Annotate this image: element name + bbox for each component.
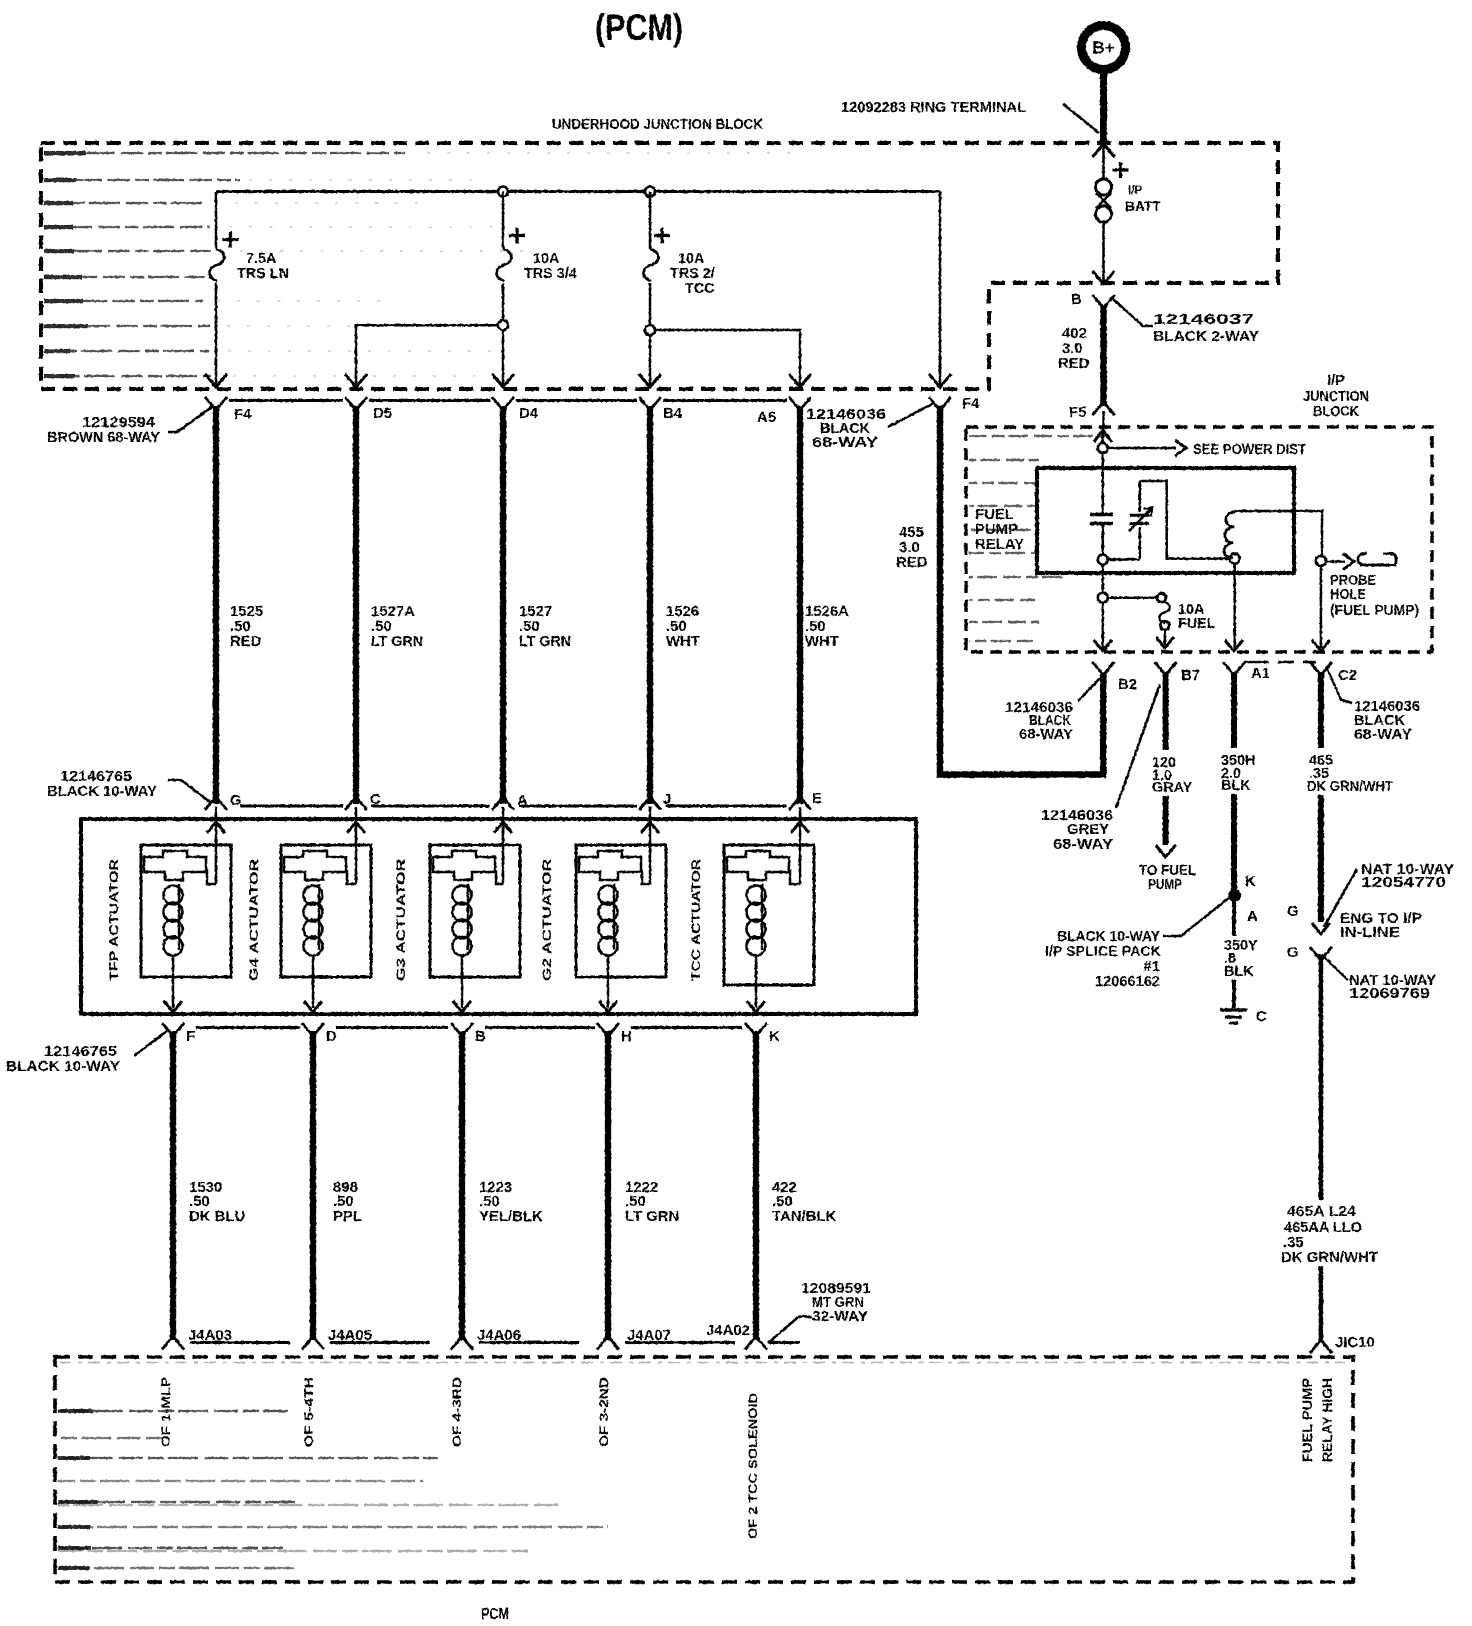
- label wire 1526: [666, 604, 700, 650]
- svg-text:YEL/BLK: YEL/BLK: [479, 1209, 543, 1225]
- svg-text:FUEL: FUEL: [1178, 616, 1216, 632]
- arrow D5 exit: [345, 374, 367, 387]
- svg-text:TCC ACTUATOR: TCC ACTUATOR: [689, 859, 703, 981]
- leader 12146036 C2: [1327, 668, 1352, 703]
- svg-text:JUNCTION: JUNCTION: [1303, 389, 1369, 405]
- relay contact capacitor plates: [1090, 515, 1113, 524]
- relay switch: [1129, 481, 1152, 560]
- arrow feed into IP block: [1094, 430, 1112, 442]
- pin D: [302, 1023, 337, 1045]
- junction TRS2 branch: [645, 325, 655, 335]
- label wire 1222: [625, 1180, 679, 1225]
- wire feed to relay: [1102, 432, 1105, 513]
- wire into G4 actuator: [347, 807, 356, 884]
- junction coil bottom: [1230, 554, 1240, 564]
- label 455 3.0 RED: [896, 525, 928, 571]
- pin B4 brown: [639, 397, 683, 422]
- svg-text:3.0: 3.0: [899, 540, 920, 556]
- svg-text:12066162: 12066162: [1095, 974, 1160, 990]
- svg-text:C: C: [1256, 1009, 1267, 1025]
- svg-text:K: K: [1245, 874, 1256, 890]
- svg-text:12129594: 12129594: [82, 415, 156, 431]
- svg-text:465A L24: 465A L24: [1287, 1204, 1357, 1220]
- label 465A L24 465AA LLO .35 DK GRN/WHT: [1281, 1204, 1378, 1266]
- leader 12146765 upper: [168, 780, 210, 802]
- arrow B+ into box: [1093, 144, 1115, 157]
- label SEE POWER DIST: [1193, 442, 1306, 458]
- G3 solenoid coil: [453, 884, 472, 956]
- svg-text:.50: .50: [666, 619, 687, 635]
- wire coil down: [1233, 564, 1236, 648]
- wire coil top to probe: [1235, 511, 1322, 555]
- actuator assembly box: [81, 819, 916, 1014]
- svg-text:465AA LLO: 465AA LLO: [1284, 1220, 1362, 1236]
- wire 1525 RED: [213, 406, 219, 804]
- wire probe arrow: [1327, 554, 1355, 570]
- TCC actuator box: [724, 845, 814, 985]
- label G3 ACTUATOR: [394, 859, 408, 981]
- pin D4 brown: [492, 397, 539, 422]
- connector bar brown 68-way: [229, 399, 787, 402]
- pin J4A02: [706, 1323, 767, 1350]
- wire switch loop: [1140, 481, 1230, 559]
- battery terminal B+: [1082, 26, 1126, 70]
- wire fuse bus: [216, 190, 940, 193]
- arrow out of G4 actuator: [304, 1001, 322, 1012]
- svg-text:.50: .50: [333, 1194, 354, 1210]
- svg-text:F5: F5: [1069, 405, 1086, 421]
- svg-text:I/P: I/P: [1128, 185, 1142, 197]
- svg-text:BLACK 10-WAY: BLACK 10-WAY: [47, 784, 157, 800]
- wire 465A upper: [1319, 954, 1324, 1200]
- pin F: [162, 1023, 195, 1045]
- svg-text:RED: RED: [230, 634, 262, 650]
- wire 1527 LT GRN: [500, 406, 506, 804]
- wire 350Y BLK: [1232, 898, 1236, 1008]
- pin B2: [1092, 662, 1137, 693]
- arrow feed exit: [1094, 640, 1112, 651]
- svg-text:68-WAY: 68-WAY: [812, 435, 878, 451]
- TFP solenoid coil: [164, 884, 183, 956]
- fuse F2 10A TRS 3/4: [497, 228, 577, 283]
- label wire 1527: [519, 604, 571, 650]
- svg-text:B7: B7: [1181, 668, 1200, 684]
- svg-text:.50: .50: [772, 1194, 793, 1210]
- arrow F4 exit: [205, 374, 227, 387]
- label wire 1525: [230, 604, 263, 650]
- svg-text:PUMP: PUMP: [1148, 877, 1182, 893]
- G2 actuator box: [576, 845, 666, 977]
- wire branch to A5: [655, 330, 800, 385]
- label 12146036 BLACK 68-WAY left: [806, 407, 886, 451]
- svg-text:PPL: PPL: [333, 1209, 362, 1225]
- svg-text:FUEL PUMP: FUEL PUMP: [1300, 1378, 1315, 1462]
- svg-text:TRS 2/: TRS 2/: [670, 266, 715, 282]
- label BLACK 10-WAY I/P SPLICE PACK #1 12066162: [1045, 929, 1161, 990]
- wire out of TFP actuator: [172, 955, 175, 1008]
- G4 solenoid plunger: [284, 851, 346, 880]
- label 350H 2.0 BLK: [1221, 753, 1255, 794]
- wire bus to F4 black: [939, 192, 942, 386]
- svg-text:1527: 1527: [519, 604, 552, 620]
- svg-text:BATT: BATT: [1125, 199, 1161, 214]
- svg-text:B: B: [475, 1029, 486, 1045]
- junction relay common: [1098, 555, 1108, 565]
- wire 898 PPL: [310, 1031, 316, 1340]
- svg-text:B: B: [1071, 292, 1082, 308]
- wire feed exit: [1102, 603, 1105, 648]
- label 350Y .8 BLK: [1224, 938, 1258, 980]
- wire bus to fuse TRS 3/4: [502, 192, 505, 250]
- junction bus-TRS2: [645, 187, 655, 197]
- wire 1526A WHT: [797, 406, 803, 804]
- fuse 10A FUEL: [1157, 593, 1216, 632]
- svg-text:D4: D4: [519, 406, 539, 422]
- svg-text:RED: RED: [1058, 356, 1090, 372]
- svg-text:BLK: BLK: [1221, 778, 1251, 794]
- arrow out of G3 actuator: [453, 1001, 471, 1012]
- svg-text:G4 ACTUATOR: G4 ACTUATOR: [247, 859, 261, 981]
- svg-text:RELAY HIGH: RELAY HIGH: [1320, 1378, 1335, 1462]
- svg-text:TFP ACTUATOR: TFP ACTUATOR: [107, 859, 121, 981]
- svg-text:LT GRN: LT GRN: [519, 634, 571, 650]
- svg-text:A: A: [1247, 909, 1258, 925]
- label FUEL PUMP RELAY: [975, 507, 1024, 553]
- wire B+ stem: [1100, 69, 1107, 141]
- svg-text:68-WAY: 68-WAY: [1354, 727, 1412, 743]
- svg-text:J4A07: J4A07: [627, 1328, 671, 1344]
- PCM box (dashed): [55, 1357, 1353, 1582]
- svg-text:TCC: TCC: [685, 281, 715, 297]
- label PCM FUEL PUMP RELAY HIGH: [1300, 1378, 1335, 1462]
- arrow out of G2 actuator: [599, 1001, 617, 1012]
- svg-text:HOLE: HOLE: [1330, 587, 1366, 603]
- scan noise PCM: [58, 1363, 1345, 1571]
- svg-text:10A: 10A: [533, 251, 560, 267]
- svg-text:B2: B2: [1118, 677, 1137, 693]
- pin J4A06: [451, 1328, 521, 1350]
- arrow batt feed exit: [1093, 271, 1115, 284]
- relay coil: [1224, 512, 1235, 558]
- pin C2: [1310, 662, 1357, 684]
- wire into TCC actuator: [790, 807, 800, 884]
- svg-text:12069769: 12069769: [1349, 986, 1430, 1002]
- label 12146036 BLACK 68-WAY C2: [1354, 699, 1420, 743]
- leader NAT upper: [1324, 869, 1357, 927]
- G4 solenoid coil: [304, 884, 323, 956]
- svg-text:RED: RED: [896, 555, 928, 571]
- svg-text:G: G: [1287, 904, 1299, 920]
- svg-text:G2 ACTUATOR: G2 ACTUATOR: [540, 859, 554, 981]
- label 12146036 GREY 68-WAY: [1041, 808, 1113, 853]
- wire 1527A LT GRN: [353, 406, 359, 804]
- junction TRS34 branch: [498, 320, 508, 330]
- svg-text:WHT: WHT: [805, 634, 839, 650]
- connector bar 32-way: [190, 1341, 800, 1344]
- svg-text:OF 3-2ND: OF 3-2ND: [597, 1377, 611, 1447]
- arrow into G2 actuator: [641, 822, 659, 833]
- arrow see power dist: [1175, 440, 1186, 456]
- arrow out of TCC actuator: [747, 1001, 765, 1012]
- svg-text:.50: .50: [519, 619, 540, 635]
- pin B 2-way: [1071, 292, 1115, 308]
- pin G: [205, 793, 242, 810]
- svg-text:.50: .50: [479, 1194, 500, 1210]
- svg-text:.35: .35: [1283, 1235, 1304, 1251]
- label A: [1247, 909, 1258, 925]
- connector bar A1-C2: [1243, 661, 1316, 664]
- svg-text:1525: 1525: [230, 604, 263, 620]
- label PCM pin function OF 5-4TH: [302, 1377, 316, 1447]
- svg-text:DK BLU: DK BLU: [189, 1209, 245, 1225]
- connector bar black 10-way upper: [240, 805, 787, 808]
- svg-text:OF 5-4TH: OF 5-4TH: [302, 1377, 316, 1447]
- wire common to switch stub: [1108, 558, 1140, 561]
- svg-text:32-WAY: 32-WAY: [812, 1309, 868, 1325]
- svg-text:GRAY: GRAY: [1152, 780, 1193, 796]
- svg-text:G3 ACTUATOR: G3 ACTUATOR: [394, 859, 408, 981]
- svg-text:BLACK 10-WAY: BLACK 10-WAY: [6, 1059, 120, 1075]
- leader 12146037: [1112, 298, 1153, 326]
- wire into TFP actuator: [207, 807, 216, 884]
- svg-text:DK GRN/WHT: DK GRN/WHT: [1307, 779, 1393, 795]
- svg-text:10A: 10A: [678, 251, 705, 267]
- wire branch to D5: [356, 325, 498, 385]
- leader 12146036 left: [888, 403, 934, 427]
- label 12146765 BLACK 10-WAY lower: [6, 1044, 120, 1075]
- wire 402 3.0 RED: [1100, 306, 1107, 406]
- wire out of G4 actuator: [312, 955, 315, 1008]
- svg-text:G: G: [230, 793, 242, 809]
- svg-text:SEE POWER DIST: SEE POWER DIST: [1193, 442, 1306, 458]
- scan noise underhood: [44, 151, 793, 378]
- scan noise I/P block: [969, 436, 1107, 641]
- svg-text:(PCM): (PCM): [595, 7, 683, 48]
- arrow inline connector: [1312, 923, 1330, 934]
- svg-text:LT GRN: LT GRN: [371, 634, 423, 650]
- svg-text:F: F: [186, 1029, 195, 1045]
- wire link down: [1102, 222, 1105, 282]
- svg-text:F4: F4: [962, 396, 980, 412]
- svg-text:GREY: GREY: [1067, 822, 1109, 838]
- wire F5 into IP block: [1102, 411, 1105, 427]
- label UNDERHOOD JUNCTION BLOCK: [552, 117, 763, 133]
- fuse F1 7.5A TRS LN: [210, 232, 289, 283]
- wire into G3 actuator: [496, 807, 503, 884]
- label wire 898: [333, 1180, 362, 1225]
- svg-text:DK GRN/WHT: DK GRN/WHT: [1281, 1250, 1378, 1266]
- svg-text:B+: B+: [1092, 38, 1114, 58]
- pin E: [789, 791, 822, 810]
- label wire 1526A: [805, 604, 849, 650]
- pin K: [745, 1023, 780, 1045]
- svg-text:J4A02: J4A02: [706, 1323, 750, 1339]
- label NAT 10-WAY 12069769: [1349, 973, 1436, 1002]
- svg-text:B4: B4: [663, 406, 683, 422]
- label PCM pin function OF 3-2ND: [597, 1377, 611, 1447]
- pin H: [597, 1023, 632, 1045]
- label G2 ACTUATOR: [540, 859, 554, 981]
- arrow into G3 actuator: [494, 822, 512, 833]
- label PCM pin function OF 2 TCC SOLENOID: [746, 1393, 760, 1539]
- label PCM: [481, 1606, 509, 1623]
- svg-text:E: E: [812, 791, 822, 807]
- pin F5: [1069, 403, 1115, 421]
- wire 350H BLK: [1231, 672, 1237, 891]
- pin F4 brown: [205, 397, 252, 423]
- label PCM pin function OF 1-MLP: [159, 1377, 173, 1447]
- wire 120 GRAY: [1163, 672, 1169, 845]
- fuel pump relay box: [1037, 468, 1294, 573]
- leader 12146765 lower: [134, 1031, 167, 1056]
- svg-text:12092283 RING TERMINAL: 12092283 RING TERMINAL: [841, 100, 1026, 116]
- label G lower: [1287, 945, 1299, 961]
- label G4 ACTUATOR: [247, 859, 261, 981]
- label PCM pin function OF 4-3RD: [450, 1377, 464, 1447]
- svg-text:D: D: [326, 1029, 337, 1045]
- label G upper: [1287, 904, 1299, 920]
- wire out of G2 actuator: [607, 955, 610, 1008]
- arrow D4 exit: [492, 374, 514, 387]
- wire fuse TRS2 down: [649, 283, 652, 385]
- pin C: [345, 792, 381, 810]
- label wire 1527A: [371, 604, 423, 650]
- G3 solenoid plunger: [433, 851, 495, 880]
- wire 1222 LT GRN: [605, 1031, 611, 1340]
- G2 solenoid coil: [599, 884, 618, 956]
- splice pack junction: [1229, 890, 1240, 901]
- svg-text:J4A03: J4A03: [188, 1328, 232, 1344]
- wire bus to fuse TRS 2/TCC: [649, 192, 652, 250]
- label TFP ACTUATOR: [107, 859, 121, 981]
- label K: [1245, 874, 1256, 890]
- svg-text:BLK: BLK: [1224, 964, 1254, 980]
- label wire 1530: [189, 1180, 245, 1225]
- svg-text:TRS LN: TRS LN: [237, 266, 289, 282]
- svg-text:.50: .50: [371, 619, 392, 635]
- svg-text:C2: C2: [1338, 668, 1357, 684]
- svg-text:BLOCK: BLOCK: [1313, 404, 1360, 420]
- svg-text:K: K: [769, 1029, 780, 1045]
- TFP solenoid plunger: [144, 851, 206, 880]
- title (PCM): [595, 7, 683, 48]
- junction fuel fuse: [1098, 593, 1108, 603]
- arrow into G4 actuator: [347, 822, 365, 833]
- svg-text:D5: D5: [373, 406, 392, 422]
- TCC solenoid coil: [747, 884, 766, 956]
- svg-text:IN-LINE: IN-LINE: [1340, 925, 1400, 941]
- leader 12146036 B2: [1078, 678, 1100, 701]
- arrow to fuel pump: [1156, 845, 1176, 857]
- leader ring terminal: [1063, 104, 1099, 133]
- I/P junction block (dashed box): [966, 427, 1432, 652]
- svg-text:.50: .50: [230, 619, 251, 635]
- label NAT 10-WAY 12054770: [1361, 862, 1454, 891]
- probe hole icon: [1358, 554, 1396, 566]
- junction bus-TRS34: [498, 187, 508, 197]
- leader 12146036 grey: [1116, 684, 1160, 808]
- svg-text:68-WAY: 68-WAY: [1053, 837, 1113, 853]
- pin A1: [1223, 662, 1270, 682]
- svg-text:(FUEL PUMP): (FUEL PUMP): [1330, 603, 1419, 619]
- svg-text:455: 455: [899, 525, 924, 541]
- arrow out of TFP actuator: [164, 1001, 182, 1012]
- svg-text:JIC10: JIC10: [1335, 1335, 1375, 1351]
- wire to power dist: [1108, 447, 1176, 450]
- label TO FUEL PUMP: [1139, 863, 1196, 893]
- svg-text:12146037: 12146037: [1153, 312, 1254, 328]
- arrow F4 black exit: [929, 374, 951, 387]
- pin J: [639, 792, 671, 810]
- svg-text:FUEL: FUEL: [975, 507, 1014, 523]
- wire bus to fuse TRS LP: [215, 192, 218, 250]
- label I/P JUNCTION BLOCK: [1303, 373, 1369, 420]
- arrow coil exit: [1225, 640, 1243, 651]
- svg-text:#1: #1: [1143, 959, 1160, 975]
- wire 1223 YEL/BLK: [459, 1031, 465, 1340]
- svg-text:J4A05: J4A05: [328, 1328, 372, 1344]
- wire to fuel fuse: [1108, 596, 1157, 599]
- label wire 422: [772, 1180, 836, 1225]
- svg-text:.50: .50: [189, 1194, 210, 1210]
- svg-text:OF 4-3RD: OF 4-3RD: [450, 1377, 464, 1447]
- svg-text:68-WAY: 68-WAY: [1019, 727, 1073, 743]
- pin B: [451, 1023, 486, 1045]
- arrow into TFP actuator: [207, 822, 225, 833]
- svg-text:UNDERHOOD JUNCTION BLOCK: UNDERHOOD JUNCTION BLOCK: [552, 117, 763, 133]
- svg-text:1526: 1526: [666, 604, 699, 620]
- svg-text:A: A: [517, 793, 528, 809]
- label TCC ACTUATOR: [689, 859, 703, 981]
- inline connector G: [1310, 947, 1332, 959]
- svg-text:BROWN 68-WAY: BROWN 68-WAY: [47, 430, 160, 446]
- pin J4A03: [162, 1328, 232, 1350]
- svg-text:OF 2 TCC SOLENOID: OF 2 TCC SOLENOID: [746, 1393, 760, 1539]
- label 12129594 BROWN 68-WAY: [47, 415, 160, 446]
- TFP actuator box: [141, 845, 231, 977]
- label 12089591 MT GRN 32-WAY: [801, 1281, 871, 1325]
- svg-text:BLACK 10-WAY: BLACK 10-WAY: [1057, 929, 1160, 945]
- leader brown 68-way: [168, 406, 213, 432]
- pin B7: [1155, 662, 1200, 684]
- svg-text:G: G: [1287, 945, 1299, 961]
- arrow probe exit: [1312, 640, 1330, 651]
- svg-text:TAN/BLK: TAN/BLK: [772, 1209, 836, 1225]
- TCC solenoid plunger: [727, 851, 789, 880]
- svg-text:I/P SPLICE PACK: I/P SPLICE PACK: [1045, 944, 1161, 960]
- svg-text:1527A: 1527A: [371, 604, 415, 620]
- svg-text:12054770: 12054770: [1361, 875, 1446, 891]
- svg-text:.50: .50: [625, 1194, 646, 1210]
- svg-text:A1: A1: [1251, 666, 1270, 682]
- pin A: [492, 793, 528, 810]
- arrow fuel fuse exit: [1156, 637, 1174, 648]
- label ENG TO I/P IN-LINE: [1340, 911, 1422, 941]
- pin J4A07: [597, 1328, 671, 1350]
- label 12092283 RING TERMINAL: [841, 100, 1026, 116]
- connector bar black 10-way lower: [196, 1026, 742, 1029]
- G2 solenoid plunger: [579, 851, 641, 880]
- wire fuel fuse down: [1164, 630, 1167, 645]
- svg-text:I/P: I/P: [1327, 373, 1345, 389]
- pin F4 black 68-way: [929, 396, 980, 412]
- wire fuse TRS 3/4 down: [502, 283, 505, 385]
- svg-text:12146765: 12146765: [60, 769, 132, 785]
- wire into G2 actuator: [642, 807, 650, 884]
- wire out of G3 actuator: [461, 955, 464, 1008]
- wire B+ to fusible link: [1102, 146, 1105, 179]
- svg-text:J4A06: J4A06: [477, 1328, 521, 1344]
